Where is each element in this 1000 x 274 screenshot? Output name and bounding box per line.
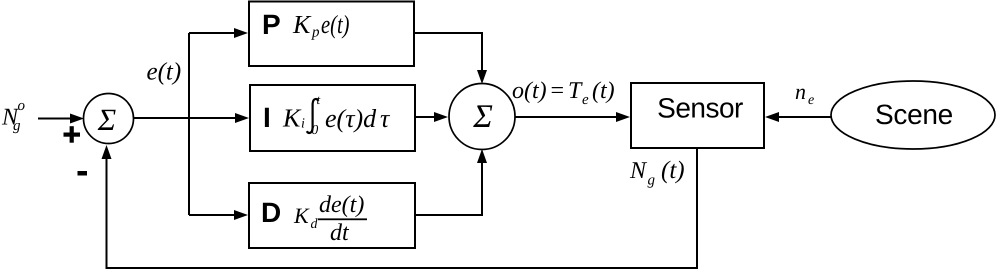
svg-text:e: e (808, 93, 814, 108)
svg-text:Scene: Scene (875, 99, 953, 130)
svg-text:T: T (568, 78, 583, 104)
svg-text:e(t): e(t) (321, 10, 350, 39)
svg-text:D: D (261, 197, 281, 228)
svg-text:o(t): o(t) (512, 78, 547, 104)
svg-text:o: o (18, 98, 26, 114)
svg-text:i: i (301, 117, 305, 132)
svg-text:(t): (t) (592, 78, 615, 104)
svg-text:Σ: Σ (472, 99, 493, 135)
svg-text:e: e (582, 92, 589, 108)
svg-text:g: g (648, 173, 656, 189)
svg-text:Sensor: Sensor (657, 93, 743, 124)
svg-text:dt: dt (330, 220, 350, 246)
svg-text:g: g (13, 118, 21, 134)
svg-text:e(t): e(t) (147, 59, 182, 86)
svg-text:p: p (311, 25, 320, 41)
svg-text:Σ: Σ (97, 102, 116, 137)
svg-text:N: N (629, 158, 648, 184)
svg-text:K: K (293, 203, 310, 228)
svg-text:d: d (311, 217, 319, 232)
svg-text:I: I (263, 102, 271, 133)
svg-text:(t): (t) (661, 157, 685, 184)
svg-text:=: = (549, 78, 565, 104)
svg-text:de(t): de(t) (319, 192, 364, 218)
svg-text:K: K (282, 104, 302, 133)
svg-text:t: t (317, 92, 321, 107)
svg-text:0: 0 (312, 122, 319, 137)
svg-text:n: n (795, 79, 806, 104)
svg-text:e(τ)d: e(τ)d (325, 104, 377, 133)
svg-text:K: K (292, 10, 312, 39)
svg-text:P: P (262, 9, 281, 40)
